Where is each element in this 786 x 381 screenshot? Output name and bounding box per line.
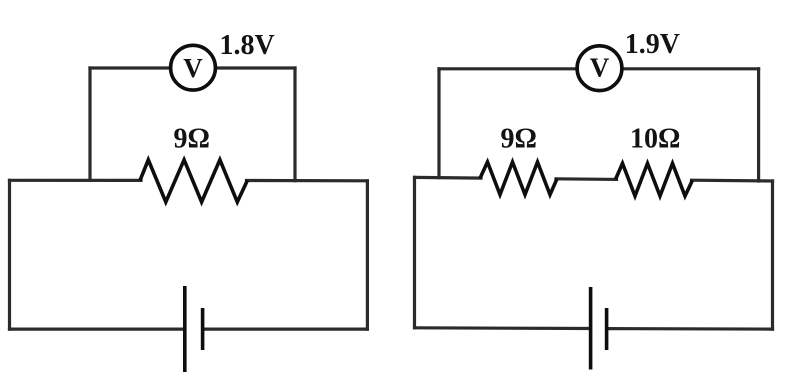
wire voltmeter branch left vertical (right circuit) — [437, 69, 440, 178]
wire top-left segment of left loop — [10, 179, 142, 182]
wire bottom-left segment of left loop — [10, 328, 185, 331]
svg-text:1.8V: 1.8V — [220, 30, 275, 61]
svg-text:9Ω: 9Ω — [174, 124, 210, 155]
battery B1 (left circuit) — [185, 286, 203, 372]
wire top segment right of 10Ω resistor (right circuit) — [692, 179, 773, 183]
wire top segment between resistors (right circuit) — [556, 177, 617, 181]
wire voltmeter top horizontal (right circuit) — [439, 67, 759, 70]
wire right edge of left loop — [366, 181, 369, 329]
svg-text:10Ω: 10Ω — [630, 124, 680, 155]
wire left edge of left loop — [8, 180, 11, 329]
svg-text:V: V — [183, 53, 203, 83]
wire voltmeter branch right vertical (right circuit) — [757, 69, 760, 181]
wire top segment left of 9Ω resistor (right circuit) — [415, 176, 482, 180]
svg-text:1.9V: 1.9V — [625, 29, 680, 60]
wire bottom-right segment of left loop — [203, 328, 368, 331]
wire voltmeter branch right vertical (left circuit) — [293, 68, 296, 181]
wire bottom-left segment of right loop — [415, 326, 591, 330]
wire voltmeter top horizontal (left circuit) — [90, 66, 295, 69]
wire left edge of right loop — [413, 177, 416, 327]
wire voltmeter branch left vertical (left circuit) — [88, 68, 91, 180]
resistor R2 9Ω (right circuit) — [480, 162, 557, 195]
voltmeter V1 (left circuit) — [171, 45, 216, 90]
resistor R1 9Ω (left circuit) — [140, 160, 247, 202]
resistor R3 10Ω (right circuit) — [616, 163, 693, 196]
wire right edge of right loop — [771, 181, 774, 329]
svg-text:9Ω: 9Ω — [501, 124, 537, 155]
wire top-right segment of left loop — [247, 179, 368, 183]
voltmeter V2 (right circuit) — [577, 46, 622, 91]
svg-text:V: V — [590, 53, 610, 83]
battery B2 (right circuit) — [591, 287, 607, 370]
wire bottom-right segment of right loop — [607, 327, 773, 331]
